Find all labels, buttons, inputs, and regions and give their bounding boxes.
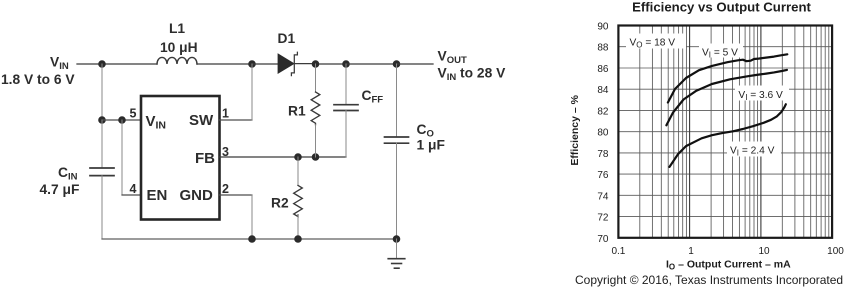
- curve label VI=2.4V: [727, 142, 781, 158]
- svg-text:1: 1: [222, 107, 229, 121]
- wire diode cathode to output node: [294, 63, 346, 65]
- node VIN-pin junction dot: [98, 116, 106, 124]
- svg-text:80: 80: [597, 128, 609, 139]
- svg-text:0.1: 0.1: [611, 246, 625, 257]
- svg-text:90: 90: [597, 22, 609, 33]
- node EN branch dot: [118, 116, 126, 124]
- svg-text:VI = 5 V: VI = 5 V: [702, 48, 738, 60]
- chart horizontal gridlines: [618, 47, 832, 217]
- curve VI=2.4V: [670, 104, 786, 167]
- capacitor CO 1 uF: [385, 64, 445, 239]
- inductor L1 10 uH: [157, 21, 198, 64]
- svg-text:EN: EN: [147, 187, 168, 204]
- svg-text:4.7 μF: 4.7 μF: [40, 182, 80, 197]
- svg-text:Efficiency – %: Efficiency – %: [569, 94, 581, 165]
- resistor R1: [288, 64, 320, 157]
- svg-text:88: 88: [597, 43, 609, 54]
- node R2 bottom rail dot: [294, 235, 302, 243]
- svg-text:72: 72: [597, 213, 609, 224]
- node CO top dot: [393, 60, 401, 68]
- curve label VI=5V: [699, 44, 743, 60]
- pin number 2: [222, 182, 229, 196]
- curve label VO=18V: [626, 34, 686, 50]
- svg-text:D1: D1: [278, 31, 296, 46]
- svg-text:74: 74: [597, 191, 609, 202]
- svg-text:10 μH: 10 μH: [160, 40, 198, 55]
- wire input node down to VIN-pin junction: [101, 64, 103, 120]
- node CFF top dot: [342, 60, 350, 68]
- svg-text:GND: GND: [180, 187, 214, 204]
- ground: [388, 259, 405, 269]
- op-amp U1 (regulator IC): [141, 96, 220, 220]
- svg-text:VIN: VIN: [50, 55, 69, 73]
- curve label VI=3.6V: [735, 86, 789, 103]
- wire input rail down to CIN: [101, 120, 103, 168]
- svg-text:VI = 3.6 V: VI = 3.6 V: [738, 90, 783, 102]
- svg-text:78: 78: [597, 149, 609, 160]
- svg-text:R2: R2: [271, 196, 289, 211]
- svg-text:VIN to 28 V: VIN to 28 V: [438, 66, 507, 84]
- node VOUT output label: [438, 49, 507, 84]
- node R2 top dot: [294, 153, 302, 161]
- svg-text:70: 70: [597, 234, 609, 245]
- wire FB pin 3 to feedback rail: [220, 156, 347, 158]
- pin number 4: [130, 182, 137, 196]
- capacitor CFF: [334, 64, 383, 157]
- svg-text:100: 100: [827, 246, 844, 257]
- node input junction dot: [98, 60, 106, 68]
- chart frame: [618, 26, 832, 238]
- wire GND pin 2 down to ground rail: [220, 195, 253, 239]
- wire CFF node to CO node: [346, 63, 397, 65]
- wire CO node to VOUT terminal: [397, 63, 434, 65]
- pin number 5: [130, 107, 137, 121]
- svg-text:4: 4: [130, 182, 137, 196]
- node R1 bottom dot: [312, 153, 320, 161]
- svg-text:1 μF: 1 μF: [417, 138, 445, 153]
- chart major decade gridlines: [690, 26, 761, 238]
- chart minor log gridlines: [640, 26, 829, 238]
- svg-text:VI = 2.4 V: VI = 2.4 V: [730, 146, 775, 158]
- svg-text:VOUT: VOUT: [438, 49, 467, 67]
- wire CIN bottom to ground rail: [101, 176, 103, 239]
- svg-text:R1: R1: [288, 104, 306, 119]
- node VIN input label: [1, 55, 75, 88]
- svg-text:IO – Output Current – mA: IO – Output Current – mA: [666, 258, 791, 271]
- curve VI=5V: [668, 54, 787, 102]
- svg-text:FB: FB: [195, 150, 215, 167]
- wire junction to pin 5: [102, 119, 141, 121]
- svg-text:CFF: CFF: [362, 88, 384, 106]
- diode D1 (Schottky): [278, 31, 298, 76]
- resistor R2: [271, 157, 302, 239]
- svg-text:76: 76: [597, 170, 609, 181]
- wire SW node to diode anode: [252, 63, 278, 65]
- svg-text:84: 84: [597, 85, 609, 96]
- wire inductor to SW node: [197, 63, 252, 65]
- svg-text:5: 5: [130, 107, 137, 121]
- wire to ground symbol: [396, 239, 398, 259]
- svg-text:82: 82: [597, 106, 609, 117]
- svg-text:1: 1: [688, 246, 694, 257]
- svg-text:Efficiency vs Output Current: Efficiency vs Output Current: [632, 0, 811, 14]
- svg-text:86: 86: [597, 64, 609, 75]
- node ground junction dot: [393, 235, 401, 243]
- svg-text:2: 2: [222, 182, 229, 196]
- svg-text:SW: SW: [189, 112, 214, 129]
- svg-text:CIN: CIN: [58, 165, 78, 183]
- svg-text:Copyright © 2016, Texas Instru: Copyright © 2016, Texas Instruments Inco…: [575, 273, 843, 287]
- wire EN branch down and into pin 4: [122, 120, 141, 195]
- wire ground rail: [102, 238, 397, 240]
- node diode-cathode / R1 top dot: [312, 60, 320, 68]
- svg-text:10: 10: [758, 246, 770, 257]
- pin number 1: [222, 107, 229, 121]
- wire VIN lead to input node: [77, 63, 102, 65]
- svg-text:1.8 V to 6 V: 1.8 V to 6 V: [1, 72, 75, 87]
- capacitor CIN 4.7 uF: [40, 165, 115, 197]
- node SW junction dot: [248, 60, 256, 68]
- wire input node to inductor L1: [102, 63, 157, 65]
- svg-text:L1: L1: [169, 21, 185, 36]
- wire SW pin 1 up to SW node: [220, 64, 253, 120]
- curve VI=3.6V: [666, 70, 787, 125]
- pin number 3: [222, 145, 229, 159]
- node GND-pin rail dot: [248, 235, 256, 243]
